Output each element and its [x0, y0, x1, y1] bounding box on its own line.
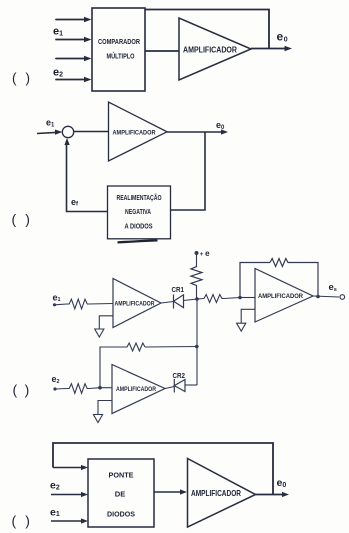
wire input 1 [56, 19, 87, 21]
bridge box [88, 459, 154, 527]
svg-text:AMPLIFICADOR: AMPLIFICADOR [113, 130, 156, 137]
arrowhead input 1 [84, 17, 92, 22]
op-amp A3 triangle [112, 365, 165, 414]
node B junction dot [238, 296, 242, 300]
svg-text:A DIODOS: A DIODOS [125, 221, 153, 230]
svg-text:AMPLIFICADOR: AMPLIFICADOR [183, 45, 237, 54]
wire A1 output to CR1 [161, 302, 174, 304]
svg-text:): ) [25, 382, 30, 398]
wire e1 to resistor [55, 303, 68, 306]
diode CR1 [174, 295, 184, 309]
wire CR2 to vertical [185, 384, 197, 386]
arrowhead box to amplifier [180, 489, 187, 494]
svg-text:COMPARADOR: COMPARADOR [98, 37, 141, 46]
svg-text:(: ( [12, 211, 17, 227]
wire top bypass [145, 10, 269, 49]
comparator box U1 [92, 8, 145, 91]
wire input 2 [56, 39, 87, 41]
feedback box [108, 186, 171, 239]
svg-text:DIODOS: DIODOS [107, 509, 135, 518]
svg-text:CR1: CR1 [172, 285, 185, 294]
svg-text:(: ( [12, 513, 17, 529]
op-amp U2 triangle [179, 18, 251, 80]
heavy pen stroke under feedback box [118, 240, 158, 242]
wire feedback return [67, 141, 108, 212]
wire output e0 (diagram 2) [167, 131, 224, 133]
wire input e1 [51, 520, 84, 522]
svg-text:AMPLIFICADOR: AMPLIFICADOR [191, 489, 241, 498]
arrowhead e1 [81, 518, 88, 523]
wire node D to op-amp A3 [100, 387, 112, 389]
svg-text:NEGATIVA: NEGATIVA [125, 207, 151, 216]
wire output e0 [251, 48, 288, 50]
op-amp A1 triangle [113, 279, 161, 328]
wire R3 to node B [224, 298, 240, 299]
svg-text:AMPLIFICADOR: AMPLIFICADOR [115, 300, 155, 307]
wire feedback top [53, 443, 273, 495]
wire ground branch A3 [98, 401, 112, 415]
terminal dot +e [195, 251, 199, 255]
arrowhead input 4 [84, 77, 92, 82]
wire feedback A2 up [240, 263, 270, 298]
svg-text:+ e: + e [200, 249, 210, 258]
wire ground branch A1 [99, 316, 113, 329]
output terminal circle es [340, 295, 345, 300]
wire input to summing junction [37, 132, 58, 133]
ground A3 [93, 415, 102, 423]
input terminal dot e2 [53, 387, 56, 390]
wire output (diagram 4) [256, 494, 286, 496]
resistor R3 (node A to node B) [197, 295, 224, 303]
wire input 3 [56, 58, 87, 60]
svg-text:): ) [25, 513, 30, 529]
op-amp U4 triangle [188, 459, 256, 528]
op-amp A2 triangle [255, 269, 313, 323]
wire ground branch A2 [241, 309, 255, 323]
arrowhead input 3 [84, 56, 92, 61]
wire CR1 to node A [184, 299, 198, 301]
wire node A down [196, 299, 198, 385]
op-amp U3 triangle [109, 102, 168, 161]
wire feedback left and down [100, 347, 126, 388]
wire e2 to resistor [55, 388, 67, 391]
svg-text:(: ( [12, 71, 17, 86]
wire A3 output to CR2 [165, 387, 174, 389]
node D junction dot [98, 386, 102, 390]
wire box to amplifier [154, 491, 183, 493]
wire resistor to node D [89, 387, 100, 390]
arrowhead output [285, 46, 293, 51]
resistor R4 feedback [270, 259, 291, 267]
svg-text:REALIMENTAÇÃO: REALIMENTAÇÃO [117, 193, 162, 202]
node C junction dot [195, 345, 199, 349]
wire feedback drop [171, 132, 206, 210]
resistor R2 pull-up [191, 265, 202, 288]
wire input e2 [51, 494, 84, 496]
wire box to amplifier [145, 50, 179, 52]
summing junction circle [62, 126, 73, 137]
wire feedback into box [53, 467, 84, 469]
svg-text:CR2: CR2 [173, 371, 186, 380]
wire resistor to op-amp A1 [89, 303, 113, 306]
wire feedback line to stage 2 [145, 346, 197, 349]
arrowhead feedback into box [81, 465, 88, 470]
resistor R6 [67, 384, 89, 394]
arrowhead into summing junction [55, 130, 62, 135]
wire junction to amplifier [74, 131, 109, 133]
svg-text:PONTE: PONTE [109, 471, 134, 480]
arrowhead output 4 [282, 492, 289, 497]
ground A2 [237, 323, 246, 331]
wire node B to op-amp A2 [240, 297, 255, 299]
svg-text:): ) [25, 211, 30, 227]
svg-text:DE: DE [115, 489, 126, 498]
arrowhead input 2 [84, 37, 92, 42]
output node dot [316, 295, 320, 299]
resistor R1 [67, 299, 89, 309]
node A junction dot [195, 297, 199, 301]
svg-text:AMPLIFICADOR: AMPLIFICADOR [116, 386, 156, 393]
resistor R5 feedback stage2 [126, 343, 145, 351]
ground A1 [95, 329, 104, 337]
svg-text:(: ( [13, 382, 18, 398]
svg-text:AMPLIFICADOR: AMPLIFICADOR [258, 293, 303, 300]
wire input 4 [56, 79, 87, 81]
arrowhead output 2 [221, 129, 228, 134]
wire A2 output [313, 296, 339, 297]
svg-text:MÚLTIPLO: MÚLTIPLO [107, 52, 135, 61]
wire node A to pull-up resistor [196, 288, 198, 300]
wire resistor to +e terminal [196, 254, 198, 265]
arrowhead e2 [81, 492, 88, 497]
diode CR2 [174, 379, 185, 393]
arrowhead feedback up [64, 138, 69, 145]
wire feedback down to output [291, 263, 318, 297]
svg-text:): ) [26, 71, 31, 86]
input terminal dot e1 [53, 303, 56, 306]
